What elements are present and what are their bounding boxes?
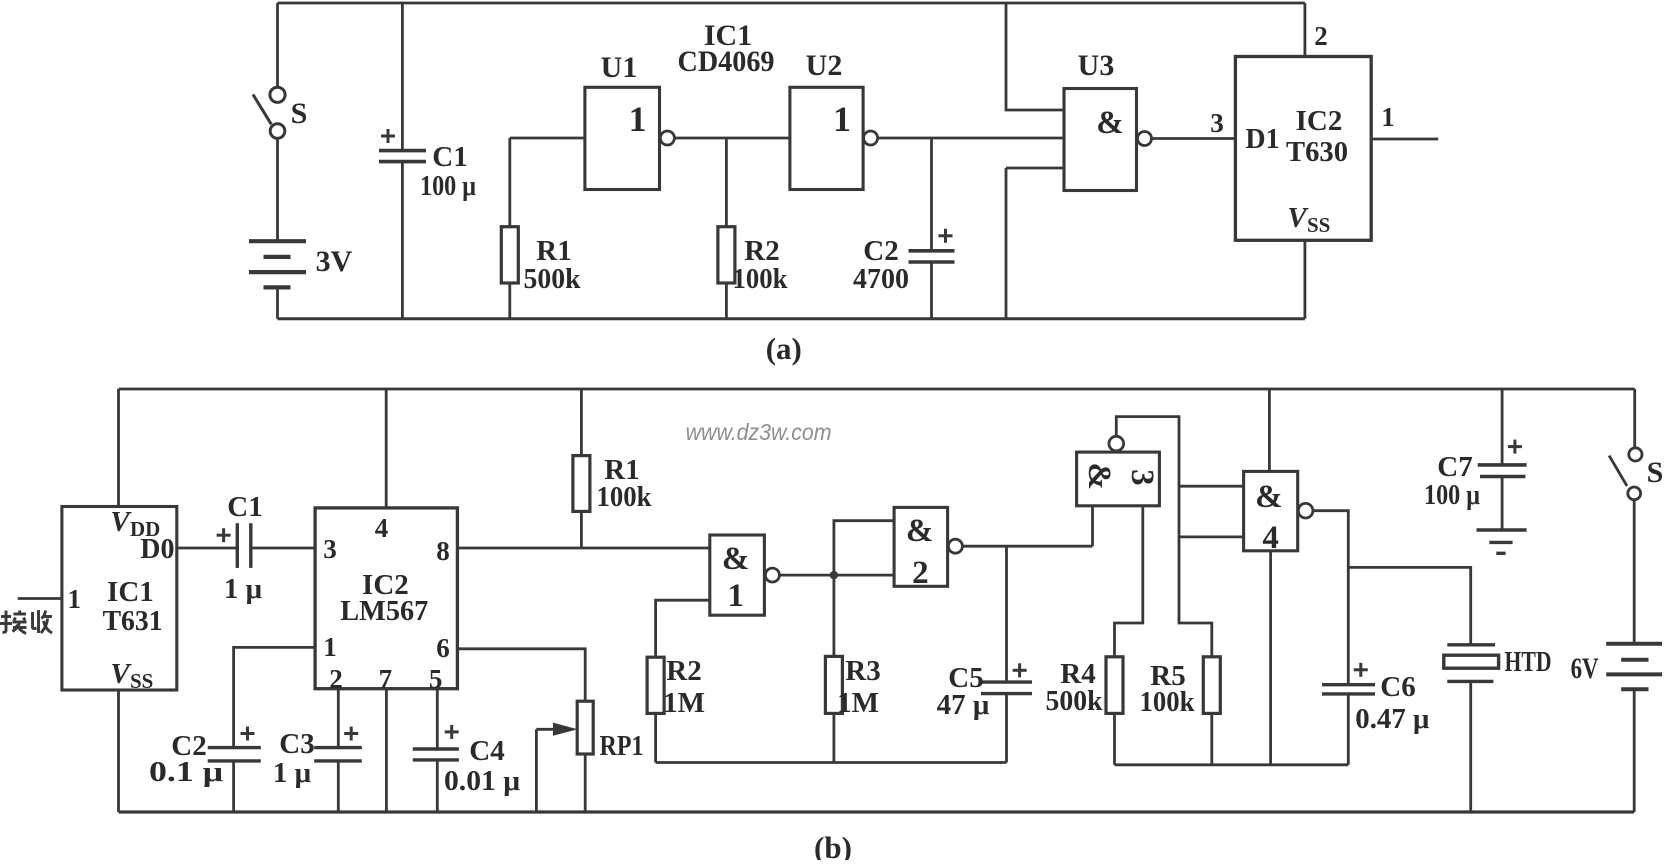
svg-text:&: &: [906, 513, 934, 549]
svg-text:C3: C3: [279, 728, 314, 760]
svg-text:(b): (b): [814, 830, 852, 860]
svg-text:R2: R2: [666, 655, 701, 687]
svg-text:IC1: IC1: [107, 576, 154, 608]
svg-text:6: 6: [436, 633, 450, 663]
svg-text:T630: T630: [1286, 136, 1348, 168]
svg-text:U1: U1: [601, 51, 638, 84]
svg-text:RP1: RP1: [600, 730, 644, 762]
svg-text:SS: SS: [1307, 213, 1330, 237]
svg-text:C6: C6: [1380, 671, 1415, 703]
svg-text:3V: 3V: [316, 245, 353, 278]
svg-text:&: &: [1096, 105, 1124, 141]
svg-text:1 μ: 1 μ: [273, 757, 312, 789]
svg-text:3: 3: [323, 534, 337, 564]
svg-text:5: 5: [429, 664, 443, 694]
svg-text:47 μ: 47 μ: [937, 689, 990, 721]
svg-text:2: 2: [912, 555, 929, 591]
svg-text:100 μ: 100 μ: [420, 170, 476, 202]
svg-text:C1: C1: [432, 141, 467, 173]
svg-text:U3: U3: [1078, 49, 1115, 82]
svg-text:IC2: IC2: [1296, 105, 1343, 137]
svg-text:0.47 μ: 0.47 μ: [1355, 703, 1430, 735]
svg-text:4: 4: [1262, 520, 1279, 556]
svg-text:0.01 μ: 0.01 μ: [444, 765, 521, 797]
svg-text:2: 2: [329, 664, 343, 694]
svg-text:3: 3: [1124, 469, 1160, 486]
svg-text:1: 1: [728, 578, 745, 614]
svg-text:1: 1: [323, 632, 337, 662]
svg-text:C4: C4: [469, 735, 504, 767]
svg-text:(a): (a): [766, 331, 802, 366]
svg-text:1: 1: [833, 99, 851, 139]
svg-text:S: S: [291, 97, 308, 130]
svg-text:U2: U2: [806, 49, 843, 82]
svg-text:S: S: [1647, 456, 1664, 489]
svg-text:R3: R3: [845, 655, 880, 687]
svg-text:1: 1: [68, 584, 82, 614]
svg-text:500k: 500k: [524, 263, 582, 295]
svg-text:0.1 μ: 0.1 μ: [149, 756, 224, 788]
svg-text:100k: 100k: [733, 263, 789, 295]
svg-text:1M: 1M: [837, 687, 879, 719]
svg-text:3: 3: [1210, 108, 1224, 138]
svg-text:T631: T631: [103, 605, 163, 637]
svg-text:100 μ: 100 μ: [1424, 479, 1480, 511]
svg-text:6V: 6V: [1571, 652, 1599, 685]
svg-text:100k: 100k: [597, 481, 653, 513]
svg-text:&: &: [1255, 479, 1283, 515]
svg-text:1M: 1M: [663, 687, 705, 719]
svg-text:HTD: HTD: [1505, 646, 1552, 678]
svg-text:8: 8: [436, 536, 450, 566]
svg-text:C1: C1: [227, 491, 262, 523]
svg-text:2: 2: [1314, 21, 1328, 51]
svg-text:4: 4: [375, 513, 389, 543]
svg-text:SS: SS: [130, 669, 153, 693]
svg-text:D1: D1: [1245, 124, 1279, 155]
svg-text:1 μ: 1 μ: [224, 573, 263, 605]
svg-text:www.dz3w.com: www.dz3w.com: [686, 419, 832, 445]
svg-text:&: &: [722, 541, 750, 577]
svg-text:4700: 4700: [853, 263, 909, 295]
svg-text:1: 1: [1381, 102, 1395, 132]
svg-text:500k: 500k: [1046, 685, 1104, 717]
svg-text:&: &: [1081, 463, 1117, 491]
svg-text:1: 1: [629, 99, 647, 139]
svg-text:LM567: LM567: [340, 595, 428, 627]
svg-text:CD4069: CD4069: [678, 45, 775, 78]
svg-text:100k: 100k: [1140, 686, 1196, 718]
svg-text:D0: D0: [140, 534, 174, 565]
